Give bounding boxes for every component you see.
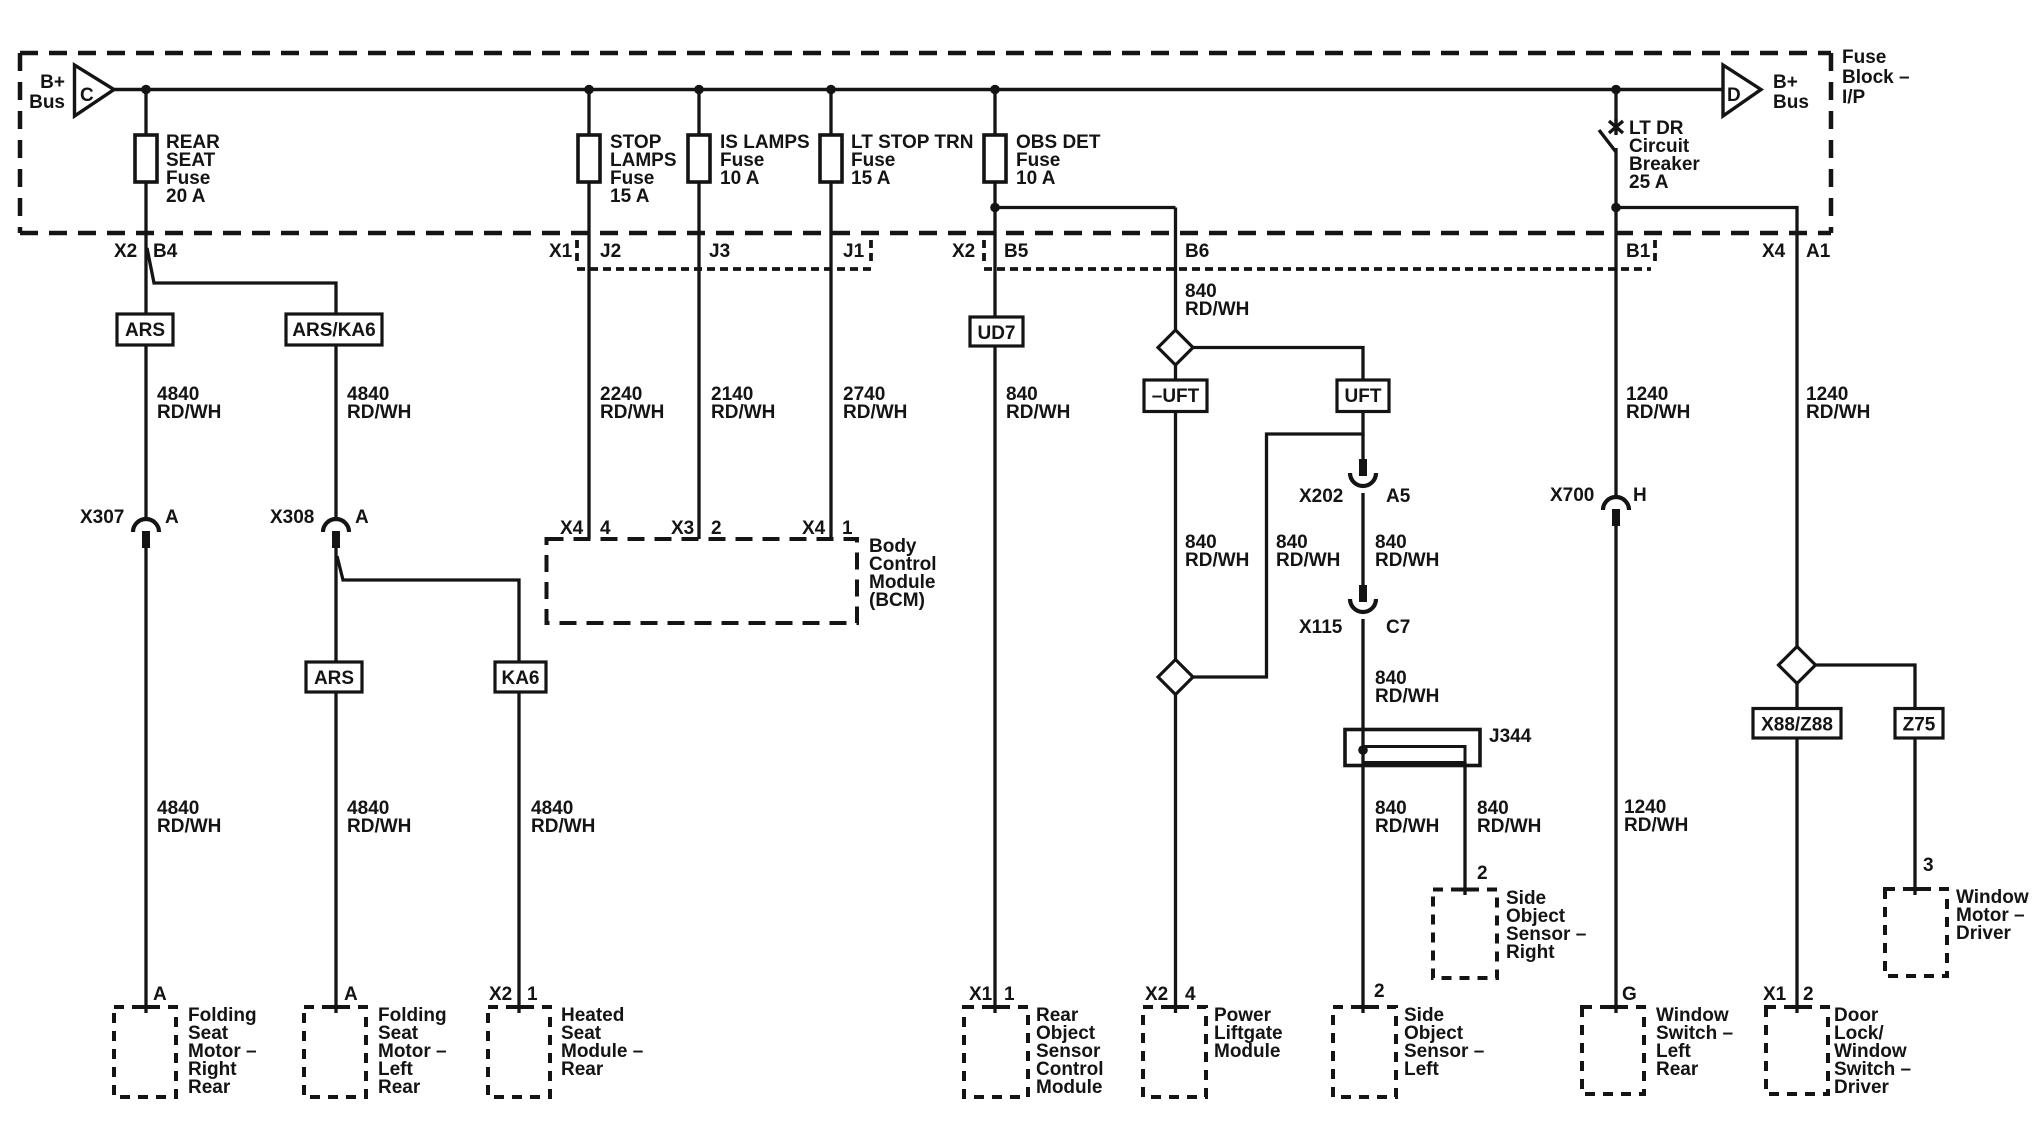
- wire bus to breaker: [1614, 90, 1617, 122]
- label B+ Bus (left): [29, 72, 65, 113]
- wire branch to B6: [995, 206, 1176, 209]
- label 840 RD/WH (right of J344): [1477, 798, 1541, 837]
- svg-text:Module: Module: [1036, 1077, 1103, 1098]
- label 840 RD/WH (-UFT col): [1185, 532, 1249, 571]
- svg-text:RD/WH: RD/WH: [1624, 815, 1688, 836]
- svg-text:15 A: 15 A: [610, 186, 650, 207]
- wire Z75 to window motor: [1913, 738, 1916, 895]
- component Window Switch - Left Rear: [1582, 1005, 1733, 1094]
- label 840 RD/WH (left of J344 lower): [1375, 798, 1439, 837]
- junction node bus x146: [141, 85, 151, 95]
- svg-text:3: 3: [1923, 855, 1934, 876]
- wire OBS DET feed (col6): [993, 90, 996, 1014]
- inline connector ARS/KA6: [286, 314, 382, 345]
- svg-text:X4: X4: [560, 518, 584, 539]
- svg-text:X2: X2: [952, 241, 975, 262]
- svg-text:D: D: [1727, 85, 1741, 106]
- wire col2 to folding seat left: [334, 692, 337, 1013]
- svg-text:RD/WH: RD/WH: [1477, 816, 1541, 837]
- label 4840 RD/WH (col1 upper): [157, 384, 221, 423]
- pin X1 2 (door lock switch): [1763, 984, 1814, 1005]
- fuse block I/P dashed outline: [20, 53, 1831, 233]
- svg-text:RD/WH: RD/WH: [1276, 550, 1340, 571]
- inline connector Z75: [1895, 709, 1943, 739]
- svg-text:RD/WH: RD/WH: [1375, 816, 1439, 837]
- component Folding Seat Motor - Right Rear: [114, 1005, 257, 1098]
- svg-text:X202: X202: [1299, 486, 1343, 507]
- svg-text:10 A: 10 A: [720, 168, 760, 189]
- junction node bus x1616: [1611, 85, 1621, 95]
- wire KA6 to heated seat module: [517, 692, 520, 1013]
- svg-text:X3: X3: [671, 518, 694, 539]
- pin X2 B4: [114, 241, 178, 262]
- label 4840 RD/WH (col2 upper): [347, 384, 411, 423]
- label 840 RD/WH (B6): [1185, 281, 1249, 320]
- svg-text:X2: X2: [489, 984, 512, 1005]
- svg-text:B+: B+: [1773, 72, 1798, 93]
- svg-text:1: 1: [1004, 984, 1015, 1005]
- svg-text:1: 1: [842, 518, 853, 539]
- svg-text:H: H: [1633, 485, 1647, 506]
- svg-text:RD/WH: RD/WH: [347, 816, 411, 837]
- fuse OBS DET 10A: [984, 132, 1101, 189]
- pin X1 J2: [549, 241, 621, 262]
- svg-text:RD/WH: RD/WH: [1185, 550, 1249, 571]
- wire splice to UFT: [1193, 348, 1363, 381]
- wire X88/Z88 to door lock switch: [1795, 738, 1798, 1013]
- svg-text:RD/WH: RD/WH: [600, 402, 664, 423]
- junction node bus x995: [990, 85, 1000, 95]
- wire branch to A1: [1616, 208, 1797, 648]
- connector row dotted line (X1 group): [577, 267, 871, 271]
- label 1240 RD/WH (B1 lower): [1624, 797, 1688, 836]
- label 840 RD/WH (C7 seg): [1375, 668, 1439, 707]
- connector X308 pin A: [270, 507, 369, 548]
- label 4840 RD/WH (col2 lower): [347, 798, 411, 837]
- connector X202 pin A5: [1299, 459, 1411, 507]
- wire B1 drop: [1614, 208, 1617, 496]
- svg-text:J3: J3: [709, 241, 730, 262]
- svg-text:X4: X4: [802, 518, 826, 539]
- fuse LT STOP TRN 15A: [820, 132, 973, 189]
- svg-text:RD/WH: RD/WH: [1375, 686, 1439, 707]
- svg-text:RD/WH: RD/WH: [157, 816, 221, 837]
- svg-text:UFT: UFT: [1345, 386, 1382, 407]
- label 840 RD/WH (UD7 col): [1006, 384, 1070, 423]
- wire X700 to window switch: [1614, 524, 1617, 1013]
- label 840 RD/WH (middle col): [1276, 532, 1340, 571]
- svg-text:Rear: Rear: [1656, 1059, 1699, 1080]
- component Side Object Sensor - Right: [1433, 888, 1586, 978]
- label 840 RD/WH (A5 seg): [1375, 532, 1439, 571]
- svg-text:C7: C7: [1386, 617, 1410, 638]
- svg-text:X88/Z88: X88/Z88: [1761, 715, 1833, 736]
- pin X2 4 (power liftgate): [1145, 984, 1196, 1005]
- svg-text:Fuse: Fuse: [1842, 47, 1886, 68]
- svg-text:RD/WH: RD/WH: [843, 402, 907, 423]
- inline connector UFT: [1337, 380, 1389, 412]
- svg-text:X2: X2: [1145, 984, 1168, 1005]
- component Door Lock/Window Switch - Driver: [1766, 1005, 1911, 1098]
- svg-text:Block –: Block –: [1842, 67, 1910, 88]
- wire rear seat feed (col1): [144, 90, 147, 520]
- junction node bus x699: [694, 85, 704, 95]
- inline connector UD7: [970, 317, 1023, 346]
- connector X115 pin C7: [1299, 585, 1410, 638]
- svg-text:2: 2: [1803, 984, 1814, 1005]
- svg-text:Right: Right: [1506, 942, 1555, 963]
- svg-text:B+: B+: [40, 72, 65, 93]
- splice diamond (upper): [1158, 330, 1193, 365]
- svg-text:RD/WH: RD/WH: [1375, 550, 1439, 571]
- svg-text:Rear: Rear: [378, 1077, 421, 1098]
- label 1240 RD/WH (B1 upper): [1626, 384, 1690, 423]
- wire diamond to X88/Z88: [1795, 684, 1798, 709]
- inline connector X88/Z88: [1753, 709, 1841, 739]
- component Folding Seat Motor - Left Rear: [304, 1005, 447, 1098]
- pin X1 1 (rear object sensor): [969, 984, 1015, 1005]
- svg-text:RD/WH: RD/WH: [157, 402, 221, 423]
- junction node bus x831: [826, 85, 836, 95]
- wire J344 to side object sensor left: [1361, 766, 1364, 1014]
- component Window Motor - Driver: [1885, 887, 2029, 976]
- svg-text:RD/WH: RD/WH: [531, 816, 595, 837]
- component Heated Seat Module - Rear: [488, 1005, 643, 1097]
- svg-text:B1: B1: [1626, 241, 1651, 262]
- wire col2: [334, 345, 337, 519]
- connector tick after B1: [1653, 240, 1657, 264]
- svg-text:15 A: 15 A: [851, 168, 891, 189]
- junction node OBS branch: [990, 203, 1000, 213]
- svg-text:RD/WH: RD/WH: [1806, 402, 1870, 423]
- svg-text:J344: J344: [1489, 726, 1532, 747]
- wire col2 lower to ARS: [334, 546, 337, 662]
- svg-text:20 A: 20 A: [166, 186, 206, 207]
- svg-text:X4: X4: [1762, 241, 1786, 262]
- inline connector ARS (lower): [306, 662, 362, 692]
- svg-text:X2: X2: [114, 241, 137, 262]
- svg-text:RD/WH: RD/WH: [1185, 299, 1249, 320]
- wire branch B4 to ARS/KA6: [147, 248, 336, 314]
- inline connector ARS: [117, 314, 173, 345]
- svg-text:Rear: Rear: [188, 1077, 231, 1098]
- connector X307 pin A: [80, 507, 179, 548]
- wire col1 lower: [144, 546, 147, 1013]
- svg-text:Left: Left: [1404, 1059, 1440, 1080]
- wire X115 to J344: [1361, 619, 1364, 730]
- svg-text:A: A: [344, 984, 358, 1005]
- svg-text:Bus: Bus: [29, 92, 65, 113]
- component Body Control Module (BCM): [547, 536, 937, 623]
- wire splice to Z75: [1816, 665, 1916, 709]
- svg-text:4: 4: [600, 518, 611, 539]
- svg-text:I/P: I/P: [1842, 87, 1866, 108]
- wire lower splice to power liftgate: [1174, 695, 1177, 1014]
- label B+ Bus (right): [1773, 72, 1809, 113]
- svg-text:X700: X700: [1550, 485, 1594, 506]
- wire UFT to X202: [1361, 434, 1364, 459]
- svg-text:J2: J2: [600, 241, 621, 262]
- svg-text:RD/WH: RD/WH: [711, 402, 775, 423]
- svg-text:C: C: [80, 85, 94, 106]
- svg-text:ARS/KA6: ARS/KA6: [292, 320, 375, 341]
- component Side Object Sensor - Left: [1333, 1005, 1484, 1097]
- svg-text:X308: X308: [270, 507, 314, 528]
- svg-text:2: 2: [1477, 863, 1488, 884]
- svg-text:2: 2: [711, 518, 722, 539]
- svg-text:A: A: [355, 507, 369, 528]
- connector tick X2: [982, 240, 986, 264]
- svg-text:1: 1: [527, 984, 538, 1005]
- fuse REAR SEAT 20A: [135, 132, 220, 207]
- B+ Bus feed triangle C: [75, 65, 115, 116]
- svg-text:UD7: UD7: [977, 323, 1015, 344]
- svg-text:2: 2: [1374, 981, 1385, 1002]
- splice diamond (A1): [1779, 647, 1816, 684]
- pins X4 4 / X3 2 / X4 1 (BCM): [560, 518, 853, 539]
- svg-text:KA6: KA6: [501, 668, 539, 689]
- junction node breaker out: [1611, 203, 1621, 213]
- svg-text:4: 4: [1185, 984, 1196, 1005]
- label 4840 RD/WH (KA6 col): [531, 798, 595, 837]
- component Rear Object Sensor Control Module: [964, 1005, 1104, 1098]
- label 2740 RD/WH: [843, 384, 907, 423]
- junction node bus x589: [584, 85, 594, 95]
- svg-text:–UFT: –UFT: [1152, 386, 1200, 407]
- wire J344 to side object sensor right: [1463, 762, 1466, 895]
- wire LT stop trn feed (col5): [829, 90, 832, 540]
- wire -UFT to lower splice: [1174, 412, 1177, 660]
- wire B6 drop: [1174, 208, 1177, 331]
- fuse STOP LAMPS 15A: [578, 132, 677, 207]
- svg-text:Bus: Bus: [1773, 92, 1809, 113]
- circuit breaker LT DR 25A: [1599, 118, 1700, 208]
- label 4840 RD/WH (col1 lower): [157, 798, 221, 837]
- svg-text:Rear: Rear: [561, 1059, 604, 1080]
- component Power Liftgate Module: [1143, 1005, 1283, 1097]
- connector tick X1: [575, 240, 579, 264]
- svg-text:A5: A5: [1386, 486, 1411, 507]
- svg-text:J1: J1: [843, 241, 865, 262]
- wire X202 to X115: [1361, 493, 1364, 585]
- pin X2 B5: [952, 241, 1029, 262]
- svg-text:X1: X1: [549, 241, 573, 262]
- splice diamond (lower): [1158, 660, 1193, 695]
- connector X700 pin H: [1550, 485, 1647, 526]
- label 1240 RD/WH (A1): [1806, 384, 1870, 423]
- svg-text:RD/WH: RD/WH: [1006, 402, 1070, 423]
- svg-text:B4: B4: [153, 241, 178, 262]
- svg-text:B5: B5: [1004, 241, 1029, 262]
- wire UFT branch left: [1193, 412, 1363, 678]
- svg-text:G: G: [1622, 984, 1637, 1005]
- svg-text:X115: X115: [1299, 617, 1343, 638]
- wire diamond to -UFT: [1174, 365, 1177, 380]
- connector tick after J1: [869, 240, 873, 264]
- svg-text:RD/WH: RD/WH: [347, 402, 411, 423]
- connector row dotted line (X2 group): [984, 267, 1651, 271]
- svg-text:ARS: ARS: [314, 668, 354, 689]
- B+ Bus out triangle D: [1723, 65, 1761, 116]
- svg-text:Module: Module: [1214, 1041, 1281, 1062]
- svg-text:(BCM): (BCM): [869, 590, 925, 611]
- wire IS lamps feed (col4): [697, 90, 700, 540]
- wire stop lamps feed (col3): [587, 90, 590, 540]
- pin X4 A1: [1762, 241, 1831, 262]
- fuse IS LAMPS 10A: [688, 132, 810, 189]
- wire B+ bus horizontal: [114, 88, 1723, 91]
- label 2140 RD/WH: [711, 384, 775, 423]
- svg-text:Driver: Driver: [1834, 1077, 1890, 1098]
- inline connector KA6: [495, 662, 546, 692]
- svg-text:X307: X307: [80, 507, 124, 528]
- svg-text:X1: X1: [969, 984, 993, 1005]
- label Fuse Block - I/P: [1842, 47, 1910, 108]
- svg-text:A: A: [153, 984, 167, 1005]
- svg-text:A1: A1: [1806, 241, 1831, 262]
- svg-text:25 A: 25 A: [1629, 172, 1669, 193]
- svg-text:Driver: Driver: [1956, 923, 2012, 944]
- wire branch X308 to KA6: [337, 556, 519, 662]
- svg-text:Z75: Z75: [1903, 715, 1936, 736]
- svg-text:X1: X1: [1763, 984, 1787, 1005]
- inline connector -UFT: [1144, 380, 1207, 412]
- svg-text:RD/WH: RD/WH: [1626, 402, 1690, 423]
- svg-text:ARS: ARS: [125, 320, 165, 341]
- splice pack J344: [1345, 726, 1532, 766]
- label 2240 RD/WH: [600, 384, 664, 423]
- svg-text:B6: B6: [1185, 241, 1209, 262]
- svg-text:10 A: 10 A: [1016, 168, 1056, 189]
- svg-text:A: A: [165, 507, 179, 528]
- pin X2 1 (heated seat module): [489, 984, 538, 1005]
